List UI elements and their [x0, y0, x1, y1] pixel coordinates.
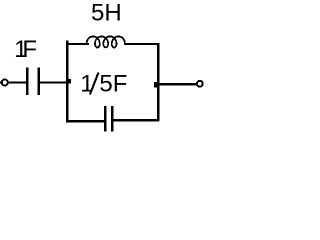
svg-text:5F: 5F	[99, 71, 127, 98]
wire: left vertical of parallel box	[66, 40, 69, 122]
right terminal circle	[197, 81, 203, 87]
wire: top branch left segment	[66, 43, 89, 45]
wire: right vertical of parallel box	[157, 43, 159, 121]
capacitor C1 1F left plate	[26, 68, 29, 95]
inductor L1 5H coil	[87, 36, 126, 47]
wire: top branch right segment	[124, 43, 159, 45]
capacitor C2 1/5F left plate	[104, 106, 107, 132]
wire: left terminal to C1	[8, 81, 26, 83]
left terminal stub	[0, 82, 3, 84]
capacitor C1 1F right plate	[38, 68, 41, 95]
capacitor C2 1/5F right plate	[111, 106, 114, 132]
wire: C1 to left node	[40, 81, 67, 83]
wire: bottom branch left segment	[66, 120, 104, 122]
label 1/5F (shunt capacitor value)	[80, 71, 127, 98]
wire: bottom branch right segment	[114, 119, 160, 121]
label 1F (series capacitor value)	[14, 36, 37, 63]
svg-text:F: F	[22, 36, 37, 63]
svg-text:5H: 5H	[91, 0, 122, 27]
node A junction dot	[66, 79, 71, 84]
wire: right node to right terminal	[156, 83, 196, 85]
node B junction dot	[154, 82, 159, 87]
left terminal circle	[2, 80, 8, 86]
svg-text:1: 1	[80, 71, 93, 98]
